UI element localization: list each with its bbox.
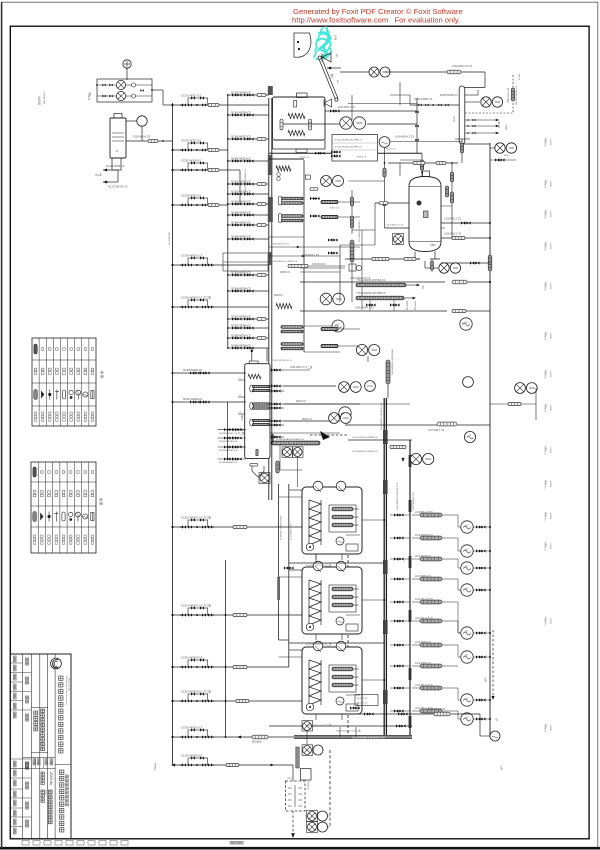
svg-text:P118-W206-CS: P118-W206-CS — [133, 136, 151, 139]
svg-text:L013-W0905-3 W0904-5: L013-W0905-3 W0904-5 — [359, 219, 361, 242]
svg-text:SC316-W0903-CS 共二路: SC316-W0903-CS 共二路 — [181, 689, 211, 693]
svg-text:W203 CS: W203 CS — [357, 157, 367, 159]
svg-text:L016-WT+1.5 CS: L016-WT+1.5 CS — [415, 512, 433, 514]
svg-text:W0906: W0906 — [551, 332, 553, 339]
svg-text:L040-W0858-5-W0659-W05: L040-W0858-5-W0659-W05 — [392, 348, 394, 375]
svg-text:SC301-W201-CS: SC301-W201-CS — [181, 93, 201, 97]
svg-text:L5-C70208-CY CS: L5-C70208-CY CS — [291, 523, 293, 540]
svg-text:SC364-W0204-CS: SC364-W0204-CS — [231, 200, 251, 203]
svg-text:SC-S998-W3: SC-S998-W3 — [169, 231, 171, 245]
svg-text:L013-WT-5.5 CS: L013-WT-5.5 CS — [428, 709, 446, 711]
svg-text:L036-W05-1 CS: L036-W05-1 CS — [302, 254, 320, 257]
svg-text:L036-W09-4.5 CS: L036-W09-4.5 CS — [355, 307, 375, 310]
svg-text:W203 CS: W203 CS — [386, 149, 396, 151]
svg-text:SC308-W0263-CS: SC308-W0263-CS — [219, 450, 238, 452]
svg-text:SC315-W0903-CS: SC315-W0903-CS — [181, 655, 203, 659]
svg-text:V304: V304 — [430, 244, 436, 247]
svg-text:TK-W501: TK-W501 — [308, 780, 310, 790]
svg-text:6-W-W04 CS: 6-W-W04 CS — [312, 264, 326, 266]
svg-text:SC310-W0903-CS 共二路: SC310-W0903-CS 共二路 — [181, 515, 211, 519]
svg-text:W208: W208 — [454, 116, 456, 122]
svg-text:L013-WT+2.5 CS: L013-WT+2.5 CS — [415, 685, 433, 687]
svg-text:L013 W0908-3 W0904-3 CS: L013 W0908-3 W0904-3 CS — [397, 482, 399, 510]
svg-text:L013-W001 CS: L013-W001 CS — [415, 663, 431, 665]
svg-text:W202 CS: W202 CS — [330, 208, 339, 210]
svg-text:L036-W051-1.5-W085 CS: L036-W051-1.5-W085 CS — [272, 261, 298, 263]
svg-text:W202 CS: W202 CS — [302, 419, 312, 421]
svg-text:SC314-W0903-CS 共二路: SC314-W0903-CS 共二路 — [181, 603, 211, 607]
svg-text:图 例: 图 例 — [99, 371, 104, 378]
svg-text:L013-WT+3.5 CS: L013-WT+3.5 CS — [415, 599, 433, 601]
svg-text:SC365-W0263-CS: SC365-W0263-CS — [231, 271, 251, 274]
svg-text:L016-W052 CS: L016-W052 CS — [415, 642, 431, 644]
svg-text:SC362-W0202-CS: SC362-W0202-CS — [231, 180, 251, 183]
svg-text:SC328 W0904-5 W0905 CS: SC328 W0904-5 W0905 CS — [245, 168, 247, 196]
svg-text:L013-W0904-3 CS: L013-W0904-3 CS — [413, 491, 415, 510]
svg-text:W0739B-W0906 CS: W0739B-W0906 CS — [516, 86, 518, 105]
svg-text:SC302-W204-CS: SC302-W204-CS — [181, 158, 201, 162]
svg-text:L041-W05-1 CS: L041-W05-1 CS — [338, 107, 355, 109]
svg-text:SC318-W0251-CS: SC318-W0251-CS — [181, 725, 203, 729]
svg-text:SC119-W0252-CS: SC119-W0252-CS — [181, 753, 203, 757]
svg-text:W0906: W0906 — [551, 617, 553, 624]
svg-text:W0906: W0906 — [551, 542, 553, 549]
svg-text:W06: W06 — [334, 35, 337, 41]
svg-text:SC364-W0262-CS: SC364-W0262-CS — [231, 235, 251, 238]
svg-text:L040-W09-4.5 CS: L040-W09-4.5 CS — [452, 65, 472, 68]
svg-text:L007-W05-1.5 CS: L007-W05-1.5 CS — [386, 225, 404, 227]
svg-text:W099: W099 — [506, 124, 508, 130]
svg-text:200X t/a: 200X t/a — [49, 772, 53, 785]
svg-text:SC303-W205-CS: SC303-W205-CS — [181, 193, 201, 197]
svg-text:W083 CS: W083 CS — [280, 272, 290, 274]
svg-text:W09: W09 — [504, 155, 509, 157]
svg-text:SC302-W202-CS: SC302-W202-CS — [181, 138, 201, 142]
svg-text:SC308-W0262-CS: SC308-W0262-CS — [219, 441, 238, 443]
svg-text:W0906: W0906 — [551, 210, 553, 217]
svg-text:L013-W0858-2-W0012-3 CS: L013-W0858-2-W0012-3 CS — [352, 735, 385, 739]
svg-text:W0906: W0906 — [551, 512, 553, 519]
svg-text:SC309-W0264-CS: SC309-W0264-CS — [219, 462, 238, 464]
svg-text:SC5/9-W0901 CS: SC5/9-W0901 CS — [414, 99, 433, 101]
svg-text:L013-WT+1.5 CS: L013-WT+1.5 CS — [415, 618, 433, 620]
svg-text:L013-W1050-2-W0689 CS: L013-W1050-2-W0689 CS — [352, 437, 378, 439]
svg-text:C103T-W0701-5 CS: C103T-W0701-5 CS — [272, 360, 292, 362]
svg-text:SC342-W0256-CS: SC342-W0256-CS — [231, 111, 251, 114]
svg-text:W202 CS: W202 CS — [300, 157, 310, 159]
svg-text:W0906: W0906 — [551, 370, 553, 377]
svg-text:W0906: W0906 — [551, 480, 553, 487]
svg-text:W08 B-1: W08 B-1 — [274, 295, 284, 297]
svg-text:Design Co., Ltd: Design Co., Ltd — [67, 678, 70, 691]
svg-text:排空总管: 排空总管 — [252, 740, 262, 744]
svg-text:L5-W9: L5-W9 — [519, 73, 521, 80]
svg-text:V501: V501 — [287, 778, 293, 780]
svg-text:W099 W0906 CS: W099 W0906 CS — [440, 95, 458, 97]
svg-text:W0906: W0906 — [551, 724, 553, 731]
svg-text:W0906: W0906 — [551, 282, 553, 289]
svg-text:SC307-W0262-CS: SC307-W0262-CS — [183, 399, 202, 401]
svg-text:SC367-W0266-CS: SC367-W0266-CS — [231, 324, 251, 327]
svg-text:SC366-W0264-CS: SC366-W0264-CS — [231, 287, 251, 290]
svg-text:SC364-W0261-CS: SC364-W0261-CS — [231, 221, 251, 224]
svg-text:R: R — [312, 518, 315, 520]
svg-text:R: R — [312, 598, 315, 600]
svg-text:L040-W09-4.5 CS: L040-W09-4.5 CS — [395, 136, 415, 139]
svg-text:SC306-W0261-CS: SC306-W0261-CS — [183, 370, 202, 372]
svg-text:YT140-W0206-W0739A CS: YT140-W0206-W0739A CS — [356, 279, 386, 282]
svg-text:W0906: W0906 — [551, 404, 553, 411]
svg-text:FT143-W0206-W0739B CS: FT143-W0206-W0739B CS — [335, 147, 362, 149]
svg-text:SC305-W0902-CS: SC305-W0902-CS — [181, 253, 203, 257]
svg-text:SC118-W565-CS: SC118-W565-CS — [106, 165, 125, 168]
svg-text:FT141-W0206-W0739A CS: FT141-W0206-W0739A CS — [335, 139, 362, 142]
svg-text:FAD-9/BG/CS: FAD-9/BG/CS — [43, 90, 46, 104]
svg-text:L013-W0905-3 W0904-3 CS: L013-W0905-3 W0904-3 CS — [381, 402, 383, 430]
svg-text:L016-W02-3 CS: L016-W02-3 CS — [444, 233, 462, 236]
svg-text:W0906: W0906 — [551, 180, 553, 187]
svg-text:T302: T302 — [241, 414, 244, 420]
svg-text:L036-W05L-3 CS: L036-W05L-3 CS — [272, 244, 289, 246]
svg-text:L013-W0901-5-W0659 CS: L013-W0901-5-W0659 CS — [352, 451, 378, 453]
svg-text:W0906: W0906 — [551, 242, 553, 249]
svg-text:SC363-W0203-CS: SC363-W0203-CS — [231, 190, 251, 193]
svg-text:R: R — [312, 678, 315, 680]
svg-text:W0906: W0906 — [551, 446, 553, 453]
svg-text:http://www.foxitsoftware.com: http://www.foxitsoftware.com For evaluat… — [292, 16, 460, 25]
svg-text:SC361-W0201-CS: SC361-W0201-CS — [231, 157, 251, 160]
svg-text:W05-2.5 CS: W05-2.5 CS — [357, 703, 368, 705]
svg-text:Generated by Foxit PDF Creator: Generated by Foxit PDF Creator © Foxit S… — [293, 7, 463, 16]
svg-text:W05-1.5 CS: W05-1.5 CS — [357, 698, 368, 700]
svg-text:SC308-W0B04-5-W0805 CS: SC308-W0B04-5-W0805 CS — [276, 439, 304, 441]
svg-text:L013-W091 CS: L013-W091 CS — [415, 576, 431, 578]
svg-text:L016-W01-3 CS: L016-W01-3 CS — [444, 218, 462, 221]
svg-text:W0906: W0906 — [551, 138, 553, 145]
svg-text:L013-W203 CS: L013-W203 CS — [415, 556, 431, 558]
svg-text:L016-W092-5 CS: L016-W092-5 CS — [415, 535, 433, 537]
svg-text:L5-P-W09-1 CS: L5-P-W09-1 CS — [428, 430, 445, 432]
svg-text:SC364-W0205-CS: SC364-W0205-CS — [231, 211, 251, 214]
svg-text:SC343-W0257-CS: SC343-W0257-CS — [231, 135, 251, 138]
svg-text:AC117-W1001-CS: AC117-W1001-CS — [108, 186, 128, 189]
svg-text:SC306-W0902-CS 共二路: SC306-W0902-CS 共二路 — [181, 295, 211, 299]
svg-text:YT143-W0206-W0739B CS: YT143-W0206-W0739B CS — [356, 292, 386, 295]
svg-text:SC341-W0255-CS: SC341-W0255-CS — [231, 91, 251, 94]
svg-text:SC369-W0268-CS: SC369-W0268-CS — [231, 344, 251, 347]
svg-text:SC367-W0265-CS: SC367-W0265-CS — [231, 315, 251, 318]
svg-text:W202 CS: W202 CS — [296, 401, 306, 403]
svg-text:图 例: 图 例 — [98, 498, 103, 505]
svg-text:SC368-W0267-CS: SC368-W0267-CS — [231, 334, 251, 337]
